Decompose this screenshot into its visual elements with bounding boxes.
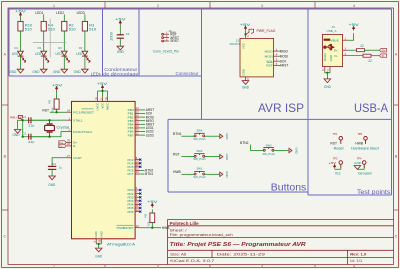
pin VCC (U1 pin 4): [102, 91, 104, 97]
wire UCAP to C3: [52, 158, 66, 166]
svg-text:+5V: +5V: [115, 18, 127, 22]
cursor crosshair: [33, 18, 67, 57]
svg-text:AVCC: AVCC: [106, 103, 110, 111]
no-connect PD4: [139, 203, 141, 205]
pin D+ (U1 pin 29): [67, 142, 72, 144]
wire to ground (USB): [326, 73, 328, 79]
wire C1 right: [31, 119, 50, 121]
wire BTN1 to switch: [181, 135, 194, 137]
svg-text:HWB: HWB: [173, 170, 181, 174]
wire switch SW4 to gnd: [205, 135, 220, 137]
ground (USB): [324, 79, 331, 83]
svg-text:Shield: Shield: [323, 53, 327, 61]
svg-text:SW_Push: SW_Push: [193, 157, 206, 161]
svg-text:TP4: TP4: [357, 156, 362, 160]
svg-text:C1: C1: [23, 115, 27, 119]
svg-text:PD6: PD6: [127, 210, 133, 214]
svg-text:USB-A: USB-A: [354, 103, 388, 115]
ground (AVR ISP): [242, 81, 249, 85]
svg-text:VBUS: VBUS: [331, 38, 339, 42]
svg-text:RST: RST: [266, 64, 272, 68]
svg-text:D-: D-: [335, 54, 338, 58]
svg-text:4: 4: [353, 4, 355, 8]
wire XTAL1 net: [23, 119, 67, 121]
wire switch SW2 to gnd: [205, 156, 220, 158]
svg-text:Vcc: Vcc: [335, 171, 341, 175]
capacitor C1 22p: [29, 117, 31, 123]
ground (UCAP): [49, 176, 56, 180]
switch SW4 SW_Push: [194, 133, 205, 137]
svg-text:R5: R5: [48, 99, 52, 103]
svg-text:SW2: SW2: [196, 149, 202, 153]
wire to label ARST: [278, 65, 280, 67]
svg-text:SW_Push: SW_Push: [193, 175, 206, 179]
wire TP3 to +5V: [335, 168, 341, 169]
svg-text:C: C: [395, 235, 398, 239]
svg-text:D-: D-: [59, 144, 62, 148]
svg-text:Id: 1/1: Id: 1/1: [350, 259, 362, 263]
svg-text:+5V: +5V: [329, 161, 337, 165]
svg-text:2: 2: [157, 265, 159, 269]
svg-text:PB7: PB7: [128, 133, 134, 137]
pin AVCC (U1 pin 32): [107, 91, 109, 97]
svg-text:D+: D+: [334, 48, 338, 52]
svg-text:GND: GND: [294, 148, 298, 154]
svg-text:TP5: TP5: [357, 132, 362, 136]
svg-text:MOSI: MOSI: [280, 54, 288, 58]
svg-text:PC1/RESET: PC1/RESET: [73, 110, 94, 114]
junction VCC: [101, 90, 103, 92]
ground (SW1): [220, 172, 223, 176]
no-connect PC5: [139, 166, 141, 168]
svg-text:BTN1: BTN1: [145, 172, 153, 176]
ground (LED column): [82, 69, 89, 73]
svg-text:10k: 10k: [50, 107, 54, 112]
svg-text:SW_Push: SW_Push: [262, 152, 275, 156]
switch SW3 SW_Push: [263, 148, 274, 152]
svg-text:de découplage: de découplage: [103, 71, 139, 76]
svg-text:510: 510: [25, 27, 32, 31]
global label D+ (MCU): [59, 141, 66, 144]
resistor R8 10k (HWB pullup): [150, 213, 155, 223]
USB receptacle glyph: [324, 39, 331, 41]
svg-text:GND: GND: [242, 86, 250, 90]
svg-text:D3: D3: [58, 46, 62, 50]
svg-text:Polytech Lille: Polytech Lille: [170, 221, 200, 226]
svg-text:510: 510: [89, 27, 96, 31]
svg-text:Date: 2025-11-29: Date: 2025-11-29: [217, 252, 265, 256]
svg-text:Size: A6: Size: A6: [170, 252, 186, 256]
svg-text:LED3: LED3: [146, 133, 154, 137]
svg-text:SW4: SW4: [196, 129, 202, 133]
svg-text:HWB/PD7: HWB/PD7: [117, 226, 134, 230]
MCU U1 ATmega8U2-A body: [72, 101, 136, 238]
wire cap bus: [22, 120, 24, 136]
svg-text:Hardware Boot: Hardware Boot: [351, 147, 379, 151]
power flag PWR_FLAG (AVR ISP): [246, 29, 254, 34]
svg-text:USB_A: USB_A: [327, 29, 338, 33]
wire R5 to RST: [56, 110, 58, 113]
wire LED1 to R: [43, 14, 45, 21]
svg-text:Crystal: Crystal: [56, 125, 69, 129]
wire HWB net: [140, 227, 161, 229]
wire C2 right: [31, 136, 50, 138]
wire shield+gnd join: [325, 72, 330, 73]
svg-text:XTAL1: XTAL1: [73, 118, 83, 122]
wire to label SCK: [278, 60, 280, 62]
svg-text:D2: D2: [38, 46, 42, 50]
junction RST: [55, 111, 57, 113]
pin GND (U1 pin 3): [95, 239, 97, 244]
svg-text:GND: GND: [225, 154, 229, 160]
svg-text:LED1: LED1: [35, 11, 43, 15]
svg-text:22p: 22p: [28, 140, 35, 144]
ground (LED column): [61, 69, 68, 73]
wire LED to GND: [43, 56, 45, 70]
svg-text:UVCC: UVCC: [96, 103, 100, 111]
no-connect PD2: [139, 196, 141, 198]
pin PAD (U1 pin 33): [100, 239, 102, 244]
svg-text:AVR-ISP-6: AVR-ISP-6: [230, 42, 240, 46]
svg-text:LED: LED: [35, 52, 42, 56]
no-connect PD3: [139, 200, 141, 202]
svg-text:Connecteur: Connecteur: [176, 71, 200, 76]
USB trident logo: [324, 44, 334, 50]
wire PB0 to label: [140, 109, 145, 111]
svg-text:+5V: +5V: [348, 23, 360, 27]
svg-text:GND: GND: [12, 133, 20, 137]
ground (SW4): [220, 134, 223, 138]
svg-text:ATmega8U2-A: ATmega8U2-A: [107, 242, 136, 246]
svg-text:GND: GND: [53, 70, 61, 74]
svg-text:510: 510: [69, 27, 76, 31]
junction XTAL1-crystal: [48, 119, 50, 121]
ground (crystal): [14, 130, 21, 134]
wire R8 to D- label: [371, 55, 379, 57]
svg-text:GND: GND: [48, 183, 56, 187]
resistor R8 22: [363, 54, 371, 57]
svg-text:TP1: TP1: [333, 132, 338, 136]
svg-text:BTN2: BTN2: [240, 141, 249, 145]
svg-text:KiCad E.D.A. 9.0.7: KiCad E.D.A. 9.0.7: [170, 259, 214, 263]
svg-text:D-: D-: [382, 54, 385, 58]
svg-text:ARST: ARST: [280, 64, 289, 68]
pin PC1/RESET (U1 pin 24): [67, 111, 72, 113]
svg-text:MISO: MISO: [265, 49, 274, 53]
wire VBUS to +5V: [348, 33, 353, 40]
no-connect PD6: [139, 211, 141, 213]
svg-text:C4: C4: [126, 32, 130, 36]
svg-text:GND: GND: [225, 133, 229, 139]
wire PB2 to label: [140, 116, 145, 118]
capacitor C3 1u: [48, 166, 56, 169]
no-connect PC2: [139, 159, 141, 161]
junction XTAL1-cap: [22, 119, 24, 121]
svg-text:D-: D-: [73, 144, 76, 148]
svg-text:D4: D4: [79, 46, 83, 50]
svg-text:HWB: HWB: [355, 141, 363, 145]
no-connect PD1: [139, 193, 141, 195]
wire R3 to LED: [84, 31, 86, 51]
ground (SW3): [289, 148, 292, 152]
svg-text:GND: GND: [74, 70, 82, 74]
switch SW1 SW_Push: [194, 171, 205, 175]
svg-text:C3: C3: [52, 162, 56, 166]
svg-text:MISO: MISO: [280, 49, 289, 53]
wire PB6 to label: [140, 131, 145, 133]
wire PC6 to label: [140, 169, 144, 171]
crystal Y1: [45, 120, 55, 136]
resistor R10 510: [18, 21, 23, 31]
wire XTAL2 net: [23, 132, 67, 137]
svg-text:VCC: VCC: [101, 103, 105, 109]
ground (LED column): [40, 69, 47, 73]
wire PC7 to label: [140, 173, 144, 175]
svg-text:LED: LED: [12, 52, 19, 56]
svg-text:GND: GND: [225, 171, 229, 177]
wire D+ pin to R7: [348, 49, 356, 51]
svg-text:PC7: PC7: [127, 172, 133, 176]
svg-text:LED3: LED3: [77, 11, 85, 15]
pin UCAP (U1 pin 27): [67, 157, 72, 159]
wire LED to GND: [63, 56, 65, 70]
svg-text:3: 3: [261, 4, 263, 8]
svg-text:GND: GND: [94, 231, 98, 237]
frame row ticks: [2, 105, 399, 210]
svg-text:22: 22: [368, 59, 372, 63]
wire R8 to HWB: [151, 223, 153, 228]
wire R4 to LED: [43, 31, 45, 51]
wire +5V to R10: [20, 17, 22, 22]
no-connect PD0: [139, 189, 141, 191]
svg-text:4: 4: [353, 265, 355, 269]
no-connect PC4: [139, 162, 141, 164]
wire RST to switch: [181, 156, 194, 158]
svg-text:22: 22: [360, 44, 364, 48]
wire +5V to C4: [119, 25, 121, 35]
capacitor C4 100n: [117, 35, 124, 38]
svg-text:SW3: SW3: [266, 144, 272, 148]
wire PB5 to label: [140, 127, 145, 129]
wire pwr flag gnd stub: [18, 120, 23, 129]
ground (SW2): [220, 154, 223, 158]
resistor R3 510: [82, 21, 87, 31]
svg-text:1: 1: [53, 265, 55, 269]
LED D1: [18, 51, 26, 62]
svg-text:BTN1: BTN1: [173, 132, 182, 136]
wire HWB to switch: [181, 173, 194, 175]
svg-text:D+: D+: [382, 49, 386, 53]
capacitor C2 22p: [29, 134, 31, 140]
global label D+: [379, 48, 386, 52]
svg-text:SRST: SRST: [170, 39, 179, 43]
svg-text:R8: R8: [144, 213, 148, 217]
wire PB3 to label: [140, 120, 145, 122]
svg-text:3: 3: [261, 265, 263, 269]
svg-text:Buttons: Buttons: [271, 182, 307, 193]
wire to label MOSI: [278, 55, 280, 57]
svg-text:SW1: SW1: [196, 167, 202, 171]
svg-text:AVR ISP: AVR ISP: [258, 103, 304, 115]
wire PB1 to label: [140, 113, 145, 115]
junction XTAL2-crystal: [48, 136, 50, 138]
global label D-: [379, 54, 386, 58]
svg-text:Conn_01x03_Pin: Conn_01x03_Pin: [153, 50, 179, 54]
frame column ticks: [105, 2, 315, 268]
svg-text:SW_Push: SW_Push: [193, 137, 206, 141]
wire R2 to LED: [63, 31, 65, 51]
svg-text:GND: GND: [324, 85, 332, 89]
svg-text:PWR_FLAG: PWR_FLAG: [257, 29, 277, 33]
wire R10 to LED: [20, 31, 22, 51]
svg-text:RST: RST: [173, 152, 180, 156]
wire LED to GND: [84, 56, 86, 70]
svg-text:MOSI: MOSI: [265, 54, 273, 58]
ground (LED column): [17, 69, 24, 73]
title block border: [168, 220, 394, 265]
svg-text:C: C: [3, 235, 6, 239]
wire to label MISO: [278, 50, 280, 52]
svg-text:+5V: +5V: [147, 200, 159, 204]
svg-text:2: 2: [157, 4, 159, 8]
resistor R5 10k (reset pullup): [54, 99, 59, 109]
switch SW2 SW_Push: [194, 154, 205, 158]
svg-text:GND: GND: [9, 70, 17, 74]
svg-text:RST: RST: [330, 141, 337, 145]
global label D- (MCU): [59, 144, 66, 147]
pin D- (U1 pin 30): [67, 145, 72, 147]
svg-text:1u: 1u: [59, 166, 63, 170]
svg-text:GND: GND: [329, 55, 333, 61]
svg-text:GND: GND: [241, 69, 245, 75]
svg-text:22p: 22p: [28, 123, 35, 127]
wire to ground (MCU): [98, 244, 100, 248]
svg-text:GND: GND: [99, 231, 103, 237]
svg-text:Title: Projet PSE S6 — Program: Title: Projet PSE S6 — Programmateur AVR: [170, 242, 307, 248]
svg-text:File: programmateur.kicad_sch: File: programmateur.kicad_sch: [170, 233, 233, 237]
connector U-box J1 AVR-ISP-6: [240, 38, 274, 77]
svg-text:GND: GND: [354, 161, 362, 165]
svg-text:LEDs: LEDs: [91, 72, 102, 78]
svg-text:LED: LED: [76, 52, 83, 56]
svg-text:Sheet: /: Sheet: /: [170, 229, 187, 233]
svg-text:+5V: +5V: [52, 83, 64, 87]
section box borders: [9, 9, 392, 195]
svg-text:1: 1: [53, 4, 55, 8]
svg-text:TP3: TP3: [333, 156, 338, 160]
LED D4: [82, 51, 90, 62]
junction VCC node: [244, 33, 246, 35]
wire RST to PC1/RESET: [50, 111, 67, 113]
ground (MCU): [95, 248, 102, 252]
wire BTN2 elbow: [251, 145, 264, 151]
svg-text:510: 510: [48, 27, 55, 31]
svg-text:GND: GND: [32, 70, 40, 74]
wire GND pins join: [96, 243, 101, 245]
wire LED3 to R: [84, 14, 86, 21]
svg-text:Test points: Test points: [357, 189, 391, 196]
svg-text:100n: 100n: [109, 32, 113, 41]
wire LED2 to R: [63, 14, 65, 21]
wire C3 to GND: [51, 170, 53, 176]
resistor R2 510: [62, 21, 67, 31]
svg-text:D1: D1: [14, 46, 18, 50]
LED D3: [61, 51, 69, 62]
svg-text:Reset: Reset: [334, 147, 344, 151]
svg-text:10k: 10k: [146, 221, 150, 226]
svg-text:LED2: LED2: [56, 11, 64, 15]
resistor R4 510: [41, 21, 46, 31]
wire switch SW3 to gnd: [274, 150, 289, 152]
svg-text:LED: LED: [55, 52, 62, 56]
wire R7 to D+ label: [365, 49, 380, 51]
svg-text:PC0/XTAL2: PC0/XTAL2: [73, 130, 92, 134]
wire TP4 to GND: [357, 168, 364, 169]
wire switch SW1 to gnd: [205, 173, 220, 175]
resistor R7 22: [357, 49, 365, 52]
pin PC0/XTAL2 (U1 pin 2): [67, 131, 72, 133]
svg-text:VCC: VCC: [241, 43, 245, 49]
pin UVCC (U1 pin 31): [97, 91, 99, 97]
svg-text:GND: GND: [95, 254, 103, 258]
svg-text:Rev: 1.0: Rev: 1.0: [350, 252, 366, 256]
wire +5V to VCC pins: [102, 89, 104, 91]
junction XTAL2-cap: [22, 136, 24, 138]
pin XTAL1 (U1 pin 1): [67, 119, 72, 121]
junction HWB: [151, 227, 153, 229]
svg-text:UCAP: UCAP: [73, 156, 82, 160]
wire +5V to VCC pin: [245, 30, 247, 36]
ground (decoupling): [117, 46, 124, 50]
LED D2: [41, 51, 49, 62]
svg-text:C2: C2: [23, 132, 27, 136]
wire PB4 to label: [140, 123, 145, 125]
wire PB7 to label: [140, 134, 145, 136]
wire R8 to +5V: [151, 209, 153, 213]
ground (TP4): [354, 166, 361, 170]
no-connect PD5: [139, 207, 141, 209]
svg-text:GND: GND: [117, 50, 125, 54]
wire C4 to GND: [119, 38, 121, 46]
junction GND node (USB): [326, 72, 328, 74]
svg-text:Ground: Ground: [358, 171, 372, 175]
svg-text:RST: RST: [42, 109, 49, 113]
wire R5 to +5V: [56, 91, 58, 100]
wire LED to GND: [20, 56, 22, 70]
